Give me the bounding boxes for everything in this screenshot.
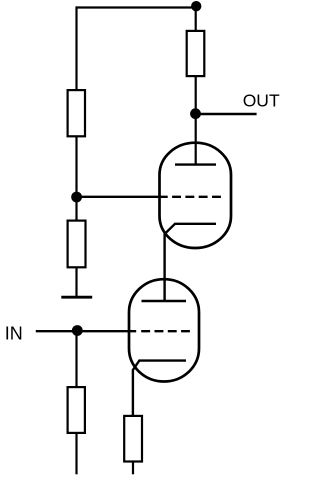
node OUT	[190, 108, 201, 119]
wire R1 bottom to R2 top	[75, 136, 77, 220]
resistor R4 (grid leak)	[68, 387, 85, 433]
node IN junction	[72, 325, 83, 336]
ground	[61, 296, 92, 299]
resistor R5 (cathode resistor)	[124, 416, 142, 462]
triode V2 envelope (lower tube)	[129, 279, 199, 381]
svg-text:OUT: OUT	[243, 91, 280, 111]
resistor R3 (anode load)	[187, 31, 205, 76]
V2 cathode with lead down to R5	[133, 361, 186, 416]
wire R5 bottom to page bottom	[132, 462, 134, 475]
svg-text:IN: IN	[5, 324, 23, 344]
resistor R2 (lower divider)	[68, 221, 86, 268]
wire IN to V2 grid	[36, 330, 136, 332]
resistor R1 (upper divider)	[68, 90, 85, 136]
wire R3 bottom through OUT node to V1 anode	[195, 76, 197, 165]
wire R4 bottom to page bottom	[75, 433, 77, 474]
wire top supply rail	[77, 6, 197, 8]
wire node A to upper tube grid	[77, 196, 168, 198]
node top rail junction	[191, 1, 201, 11]
wire IN node down to R4	[75, 331, 77, 388]
V1 grid (dashed)	[172, 196, 221, 198]
wire rail to R3 top	[195, 6, 197, 31]
wire R2 bottom to ground	[75, 267, 77, 296]
node A (grid of upper tube V1)	[71, 192, 82, 203]
V1 cathode with lead down to V2 anode	[165, 224, 216, 301]
wire OUT stub	[196, 113, 257, 115]
triode V1 envelope (upper tube)	[160, 143, 232, 248]
V1 anode plate	[175, 163, 216, 165]
wire left vertical from rail to R1	[75, 6, 77, 90]
V2 anode plate	[142, 300, 187, 302]
V2 grid (dashed)	[141, 330, 190, 332]
